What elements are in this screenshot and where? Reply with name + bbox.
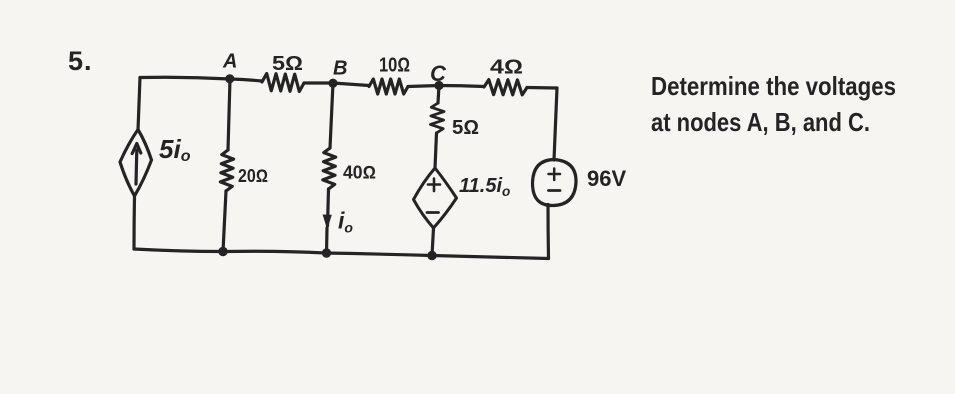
- wire: 10-ohm resistor to node C: [408, 86, 439, 87]
- svg-text:5io: 5io: [159, 134, 191, 165]
- svg-text:5Ω: 5Ω: [452, 117, 479, 139]
- resistor 5 ohm (between A and B), horizontal zigzag: [262, 74, 304, 92]
- wire: vertical 5-ohm resistor to dependent voltage source: [435, 133, 437, 168]
- wire: dependent voltage source to bottom rail: [432, 228, 434, 256]
- plus sign inside 96V source: [549, 169, 561, 181]
- svg-text:11.5io: 11.5io: [459, 175, 510, 199]
- wire: node C down to 5-ohm resistor: [438, 86, 439, 104]
- resistor 5 ohm (below C), vertical zigzag: [430, 103, 444, 133]
- arrow inside current source (pointing up): [134, 150, 138, 184]
- wire: bottom rail: [134, 249, 549, 259]
- junction dot: bottom of 20-ohm branch: [218, 247, 227, 256]
- svg-text:5Ω: 5Ω: [272, 53, 303, 75]
- svg-text:96V: 96V: [587, 166, 626, 191]
- dependent current source 5io (diamond), left rail: [120, 130, 152, 197]
- resistor 40 ohm, vertical zigzag: [323, 148, 336, 189]
- svg-text:A: A: [222, 51, 237, 73]
- svg-text:io: io: [338, 208, 353, 236]
- node B junction dot: [328, 79, 337, 88]
- dependent voltage source 11.5io (diamond): [414, 168, 457, 228]
- wire: 40-ohm resistor to bottom rail with current arrow io: [327, 189, 329, 253]
- junction dot: bottom of 40-ohm branch: [322, 248, 331, 257]
- svg-text:10Ω: 10Ω: [379, 55, 410, 77]
- svg-text:40Ω: 40Ω: [343, 163, 376, 183]
- resistor 20 ohm, vertical zigzag: [220, 150, 233, 191]
- wire: left rail vertical, top corner to current source: [138, 78, 140, 131]
- svg-text:B: B: [333, 58, 347, 80]
- wire: right rail vertical, top corner down to 96V source: [554, 88, 557, 160]
- minus sign inside 11.5io source: [427, 211, 439, 214]
- svg-text:Determine the voltages: Determine the voltages: [651, 71, 896, 101]
- svg-text:5.: 5.: [68, 46, 93, 76]
- wire: left rail vertical, current source to bottom-left corner: [132, 196, 136, 249]
- node A junction dot: [225, 74, 234, 83]
- svg-text:4Ω: 4Ω: [490, 57, 523, 79]
- wire: right rail vertical, 96V source to bottom-right corner: [546, 205, 550, 259]
- wire: node A to 5-ohm resistor: [230, 79, 262, 81]
- wire: 20-ohm resistor to bottom rail: [223, 191, 226, 252]
- minus sign inside 96V source: [549, 189, 561, 192]
- arrowhead of current arrow io (pointing down): [323, 215, 332, 230]
- wire: node B down to 40-ohm resistor: [330, 83, 333, 148]
- junction dot: bottom of 11.5io branch: [427, 251, 436, 260]
- wire: top rail, left corner to node A: [140, 77, 230, 79]
- resistor 10 ohm (between B and C), horizontal zigzag: [369, 79, 408, 94]
- node C junction dot: [434, 81, 443, 90]
- svg-text:at nodes A, B, and C.: at nodes A, B, and C.: [651, 107, 870, 137]
- wire: 5-ohm resistor to node B: [304, 81, 333, 84]
- svg-text:20Ω: 20Ω: [238, 166, 268, 186]
- wire: node C to 4-ohm resistor: [439, 86, 484, 87]
- voltage source 96V (circle): [533, 160, 577, 206]
- wire: node B to 10-ohm resistor: [333, 83, 369, 86]
- wire: 4-ohm resistor to top-right corner: [527, 86, 557, 90]
- wire: node A down to 20-ohm resistor: [228, 79, 230, 150]
- svg-text:C: C: [430, 61, 447, 86]
- plus sign inside 11.5io source: [428, 179, 440, 192]
- resistor 4 ohm (between C and right rail), horizontal zigzag: [484, 80, 527, 95]
